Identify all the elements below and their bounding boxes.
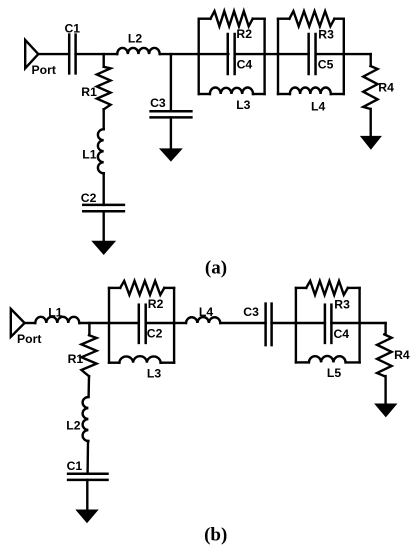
resistor R1 (a) bbox=[97, 67, 111, 110]
capacitor C1 (b) bbox=[68, 472, 107, 475]
wire C2 to ground (a) bbox=[102, 211, 104, 243]
wire port to L1 (b) bbox=[25, 322, 36, 324]
wire tank2 to R4 (b) bbox=[360, 322, 386, 324]
wire L2 to tank1 (a) bbox=[160, 53, 199, 55]
wire R4 to ground (b) bbox=[384, 376, 386, 406]
wire C1 to ground (b) bbox=[86, 480, 88, 512]
svg-text:R1: R1 bbox=[68, 352, 84, 366]
inductor L1 (b) bbox=[35, 317, 79, 323]
inductor L2 (b) bbox=[83, 397, 89, 441]
wire R4 to ground (a) bbox=[370, 109, 372, 138]
capacitor C2 (b) bbox=[109, 322, 139, 324]
wire tank1 to L4 (b) bbox=[174, 322, 186, 324]
wire tank1 left edge (a) bbox=[197, 19, 199, 94]
ground arrow at R4 (b) bbox=[375, 404, 396, 417]
svg-text:L3: L3 bbox=[147, 367, 161, 381]
svg-text:L2: L2 bbox=[128, 32, 142, 46]
wire L1 to tank1 (b) bbox=[79, 322, 109, 324]
resistor R2 (a) bbox=[199, 18, 211, 20]
port symbol (a) bbox=[25, 40, 38, 68]
svg-text:C2: C2 bbox=[81, 191, 97, 205]
svg-text:R2: R2 bbox=[148, 297, 164, 311]
svg-text:C1: C1 bbox=[67, 459, 83, 473]
svg-text:R4: R4 bbox=[378, 80, 394, 94]
svg-text:R4: R4 bbox=[394, 348, 410, 362]
wire L1 to C2 (a) bbox=[102, 173, 104, 205]
resistor R3 (b) bbox=[296, 287, 306, 289]
svg-text:C3: C3 bbox=[150, 96, 166, 110]
wire L4 to C3 (b) bbox=[220, 322, 265, 324]
svg-text:C2: C2 bbox=[147, 327, 163, 341]
ground arrow at C3 (a) bbox=[160, 149, 182, 161]
svg-text:L1: L1 bbox=[48, 306, 62, 320]
inductor L2 (a) bbox=[117, 48, 160, 54]
wire C3 to tank2 (b) bbox=[272, 322, 296, 324]
svg-text:(a): (a) bbox=[205, 258, 227, 279]
capacitor C3 (a) bbox=[151, 110, 192, 113]
wire C1 to L2 (a) bbox=[76, 53, 118, 55]
inductor L5 (b) bbox=[296, 361, 309, 363]
wire junction to C3 (a) bbox=[170, 54, 172, 111]
svg-text:R3: R3 bbox=[318, 27, 334, 41]
resistor R1 (b) bbox=[81, 335, 96, 376]
svg-text:R1: R1 bbox=[81, 85, 97, 99]
svg-text:L4: L4 bbox=[311, 99, 325, 113]
inductor L4 (b) bbox=[186, 317, 220, 323]
resistor R2 (b) bbox=[109, 287, 120, 289]
ground arrow at C1 (b) bbox=[76, 510, 97, 523]
svg-text:C4: C4 bbox=[237, 57, 253, 71]
wire tank1 left edge (b) bbox=[108, 288, 110, 363]
wire tank1 right edge (a) bbox=[263, 19, 265, 94]
wire R1 to L1 (a) bbox=[102, 109, 104, 129]
inductor L3 (b) bbox=[109, 362, 119, 364]
svg-text:L5: L5 bbox=[327, 366, 341, 380]
wire tank2 right edge (a) bbox=[343, 19, 345, 94]
wire junction to R1 (b) bbox=[88, 323, 90, 335]
inductor L1 (a) bbox=[98, 129, 104, 173]
svg-text:C3: C3 bbox=[243, 305, 259, 319]
svg-text:L3: L3 bbox=[236, 98, 250, 112]
wire R1 to L2 (b) bbox=[87, 376, 90, 397]
svg-text:(b): (b) bbox=[204, 525, 227, 546]
svg-text:Port: Port bbox=[17, 332, 41, 346]
wire tank2 right edge (b) bbox=[358, 288, 360, 363]
wire L2 to C1 (b) bbox=[86, 441, 89, 474]
resistor R4 (b) bbox=[377, 334, 392, 376]
capacitor C1 (a) bbox=[68, 35, 71, 74]
wire port to C1 (a) bbox=[38, 53, 69, 55]
inductor L4 (a) bbox=[278, 93, 290, 95]
svg-text:R3: R3 bbox=[334, 298, 350, 312]
capacitor C2 (a) bbox=[83, 204, 124, 207]
capacitor C5 (a) bbox=[278, 53, 309, 55]
wire tank1 to tank2 (a) bbox=[265, 53, 278, 55]
svg-text:C4: C4 bbox=[334, 327, 350, 341]
resistor R3 (a) bbox=[278, 18, 289, 20]
ground arrow at C2 (a) bbox=[92, 241, 115, 254]
wire tank2 left edge (b) bbox=[295, 288, 297, 363]
capacitor C4 (a) bbox=[199, 53, 229, 55]
wire tank2 left edge (a) bbox=[277, 19, 279, 94]
svg-text:C5: C5 bbox=[318, 58, 334, 72]
svg-text:C1: C1 bbox=[65, 21, 81, 35]
capacitor C3 (b) bbox=[264, 304, 267, 346]
svg-text:L2: L2 bbox=[66, 418, 80, 432]
capacitor C4 (b) bbox=[296, 322, 325, 324]
svg-text:L4: L4 bbox=[199, 305, 213, 319]
svg-text:R2: R2 bbox=[236, 27, 252, 41]
svg-text:L1: L1 bbox=[82, 147, 96, 161]
port symbol (b) bbox=[11, 309, 25, 337]
wire tank2 to R4 (a) bbox=[344, 53, 371, 55]
ground arrow at R4 (a) bbox=[361, 136, 381, 149]
resistor R4 (a) bbox=[363, 66, 377, 109]
wire C3 to ground (a) bbox=[170, 117, 172, 150]
inductor L3 (a) bbox=[199, 93, 210, 95]
wire junction to R1 (a) bbox=[102, 54, 104, 67]
svg-text:Port: Port bbox=[32, 63, 56, 77]
wire tank1 right edge (b) bbox=[173, 288, 175, 363]
wire R4 top lead (b) bbox=[384, 323, 386, 334]
wire R4 top lead (a) bbox=[370, 54, 372, 66]
